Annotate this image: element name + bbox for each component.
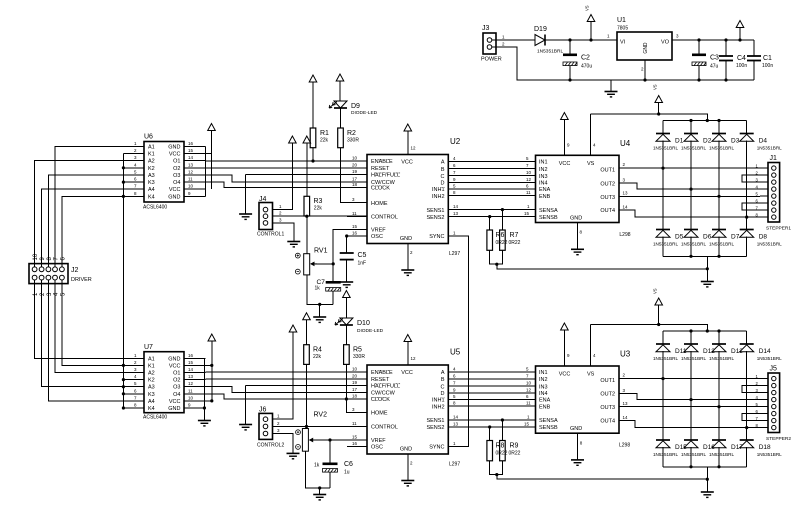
svg-text:CLOCK: CLOCK — [371, 397, 390, 403]
power VCC arrow J6 — [289, 325, 297, 332]
U7 pin8 name K4 — [148, 406, 155, 412]
wire D1 anode down — [662, 141, 664, 230]
U4 pin5 number — [526, 156, 529, 161]
svg-text:10: 10 — [526, 170, 532, 175]
wire J1 pins2-3 loop — [742, 175, 768, 182]
D8 value 1N5351BRL — [757, 242, 782, 247]
wire D4 cathode — [746, 121, 748, 134]
svg-text:0R22: 0R22 — [509, 451, 521, 457]
wire OUT2 to J1 pin4 — [619, 183, 760, 189]
wire U3 VCC pin9 — [563, 330, 565, 366]
connector J4 — [259, 203, 273, 230]
wire J1 pin5 stub — [760, 195, 768, 197]
resistor R5 — [344, 345, 350, 365]
J5 pin1 number — [756, 374, 759, 379]
U5 pin17 number — [352, 387, 358, 392]
C3 value 47u — [710, 64, 719, 70]
RV2 value 1k — [314, 463, 320, 469]
svg-text:INH2: INH2 — [432, 404, 445, 410]
diode-led D10 — [335, 318, 353, 325]
svg-text:GND: GND — [570, 216, 582, 222]
U6 pin15 name VCC — [169, 152, 181, 158]
ground symbol power rail — [605, 92, 618, 97]
power VCC arrow R3 — [303, 136, 311, 196]
U7 pin14 name O1 — [173, 371, 180, 377]
wire U6 pin7 stub — [123, 188, 144, 190]
U4 pin12 number — [526, 177, 532, 182]
svg-text:IN4: IN4 — [539, 391, 548, 397]
wire U2 OSC stub — [347, 235, 367, 237]
J2 bottom pin number 2 — [40, 292, 46, 296]
wire U7 pin2 stub — [123, 364, 144, 366]
svg-text:K2: K2 — [148, 378, 155, 384]
junction OUT2 diodes — [689, 188, 692, 191]
J5 pin5 number — [756, 402, 759, 407]
U4 OUT1 label — [600, 168, 615, 174]
wire SENS2 to U3 SENSB — [448, 426, 535, 428]
U7 pin3 name A2 — [148, 371, 155, 377]
svg-text:18: 18 — [352, 182, 358, 187]
U5 pin10 number — [352, 367, 358, 372]
wire U7 VCC pin10 — [184, 400, 212, 402]
svg-text:1N5351BRL: 1N5351BRL — [757, 242, 782, 247]
U7 pin3 number — [134, 367, 137, 372]
svg-text:1N5351BRL: 1N5351BRL — [709, 356, 734, 361]
J3 pin2 number — [502, 42, 505, 47]
svg-text:GND: GND — [168, 356, 180, 362]
resistor R4 — [304, 345, 310, 365]
svg-text:SENSB: SENSB — [539, 425, 558, 431]
wire D19 to U1 VI — [545, 39, 618, 41]
wire RV1 bottom rail — [307, 275, 333, 305]
potentiometer RV1 — [295, 253, 317, 275]
wire C4 top — [725, 40, 727, 56]
svg-text:CONTROL1: CONTROL1 — [257, 232, 284, 238]
wire diode top rail — [663, 120, 747, 122]
svg-text:D: D — [441, 391, 445, 397]
svg-text:14: 14 — [623, 415, 629, 420]
wire J2 pin5 to U7 pin2 — [62, 280, 144, 365]
svg-text:D1: D1 — [675, 138, 684, 145]
wire diode bottom rail — [663, 255, 747, 257]
wire R8 R9 join — [490, 461, 503, 475]
R2 refdes — [347, 130, 356, 137]
svg-text:OUT2: OUT2 — [600, 392, 615, 398]
wire R9 top — [501, 420, 503, 441]
J5 refdes — [770, 366, 778, 373]
R7 value 0R22 — [509, 240, 521, 246]
D1 value 1N5351BRL — [653, 146, 678, 151]
capacitor C3 — [692, 54, 706, 66]
C5 value 1nF — [358, 261, 367, 267]
U2 pin SENS2 label — [426, 215, 444, 221]
U2 pin CONTROL label — [371, 215, 398, 221]
svg-text:OUT1: OUT1 — [600, 378, 615, 384]
resistor R7 — [500, 230, 506, 250]
D4 refdes — [759, 138, 768, 145]
wire bus grounded HALF/FULL2 — [246, 384, 367, 386]
svg-text:7805: 7805 — [617, 26, 628, 32]
U4 pin14 number — [623, 204, 629, 209]
wire U2 GND pin2 — [407, 244, 409, 270]
junction U7 VCC pin15 — [210, 364, 213, 367]
U5 pin16 number — [352, 441, 358, 446]
wire U2 to U4 IN1 — [448, 161, 535, 163]
svg-text:VCC: VCC — [169, 363, 181, 369]
wire U4 GND pin8 — [577, 223, 579, 249]
svg-text:15: 15 — [188, 148, 194, 153]
driver U3 body — [536, 366, 620, 433]
wire cathode common bus — [122, 154, 124, 366]
J5 pin8 number — [756, 423, 759, 428]
svg-text:VS: VS — [652, 84, 657, 90]
svg-text:15: 15 — [524, 211, 530, 216]
wire U5 CONTROL stub — [347, 426, 367, 428]
U6 pin3 name A2 — [148, 159, 155, 165]
U3 pin ENA label — [539, 398, 551, 404]
U5 pin VREF label — [371, 438, 386, 444]
wire R7 top — [501, 210, 503, 230]
svg-text:CW/CCW: CW/CCW — [371, 391, 396, 397]
svg-text:GND: GND — [168, 144, 180, 150]
U7 pin14 number — [188, 367, 194, 372]
wire U7 pin12 stub — [184, 386, 206, 388]
D14 refdes — [759, 348, 771, 355]
U2 pin CLOCK label — [371, 186, 390, 192]
wire U5 OSC stub — [347, 446, 367, 448]
wire U7 GND loop — [203, 358, 205, 408]
D5 refdes — [675, 234, 684, 241]
svg-text:L298: L298 — [619, 443, 630, 449]
D9 refdes — [351, 103, 360, 110]
U4 OUT4 label — [600, 208, 615, 214]
ground symbol diode rail 2 — [701, 492, 714, 497]
svg-text:STEPPER2: STEPPER2 — [766, 436, 791, 442]
svg-text:15: 15 — [524, 421, 530, 426]
C1 value 100n — [762, 63, 773, 69]
junction OSC C5 — [345, 234, 348, 237]
svg-text:19: 19 — [352, 380, 358, 385]
U1 pin1 number — [607, 34, 610, 39]
svg-text:J1: J1 — [770, 155, 778, 162]
svg-text:INH1: INH1 — [432, 398, 445, 404]
junction R9 SENS1-2 — [501, 418, 504, 421]
VS label top-left — [585, 5, 590, 11]
U5 pin8 number — [453, 401, 456, 406]
svg-text:K1: K1 — [148, 363, 155, 369]
U2 pin RESET label — [371, 166, 390, 172]
diode D19 — [535, 35, 545, 46]
U7 pin4 number — [134, 374, 137, 379]
wire J5 pins2-3 loop — [742, 386, 768, 393]
svg-text:1N5351BRL: 1N5351BRL — [709, 452, 734, 457]
wire D16 anode down — [690, 447, 692, 467]
U6 pin8 number — [134, 191, 137, 196]
junction U7 K bus A3 cross — [122, 385, 125, 388]
ground symbol RV2 — [313, 495, 326, 500]
U4 pin3 number — [623, 177, 626, 182]
J6 refdes — [259, 407, 267, 414]
wire J5 pin3 stub — [760, 392, 768, 394]
svg-text:OUT3: OUT3 — [600, 405, 615, 411]
svg-text:GND: GND — [168, 406, 180, 412]
U4 pin13 number — [623, 191, 629, 196]
wire D14 cathode — [746, 331, 748, 344]
U3 pin IN2 label — [539, 377, 548, 383]
svg-text:VREF: VREF — [371, 438, 386, 444]
D12 value 1N5351BRL — [681, 356, 706, 361]
capacitor C1 — [747, 56, 761, 61]
U3 pin9 number — [567, 353, 570, 358]
D15 value 1N5351BRL — [653, 452, 678, 457]
U3 refdes — [620, 350, 631, 359]
U5 value L297 — [449, 462, 460, 468]
junction R8 SENS2-2 — [488, 425, 491, 428]
wire J2 pin9 to U6 pin7 — [42, 189, 144, 267]
D6 refdes — [703, 234, 712, 241]
wire D5 anode down — [662, 237, 664, 257]
svg-text:20: 20 — [352, 374, 358, 379]
diode D8 — [740, 230, 754, 238]
U4 VS label — [587, 161, 595, 167]
wire bus HALF/FULL2 jog — [206, 387, 368, 393]
diode D18 — [740, 440, 754, 448]
resistor R2 — [338, 128, 344, 148]
D18 value 1N5351BRL — [757, 452, 782, 457]
U6 pin1 number — [134, 141, 137, 146]
junction R4 CONTROL2 — [305, 425, 308, 428]
R1 value 22k — [320, 138, 329, 144]
svg-text:SENSB: SENSB — [539, 215, 558, 221]
D2 refdes — [703, 138, 712, 145]
svg-text:DIODE-LED: DIODE-LED — [351, 110, 378, 116]
wire U5 CW/CCW stub — [347, 391, 367, 393]
U5 pin RESET label — [371, 377, 390, 383]
wire U7 VCC pin15 — [204, 364, 211, 366]
D2 value 1N5351BRL — [681, 146, 706, 151]
U5 pin18 number — [352, 394, 358, 399]
svg-text:C6: C6 — [344, 461, 353, 468]
svg-text:18: 18 — [352, 394, 358, 399]
wire U6 pin10 stub — [184, 188, 206, 190]
driver U4 body — [536, 155, 620, 222]
wire U5 RESET stub — [347, 378, 367, 380]
svg-text:R2: R2 — [347, 130, 356, 137]
svg-text:A1: A1 — [148, 356, 155, 362]
svg-text:J4: J4 — [259, 196, 267, 203]
svg-text:VCC: VCC — [559, 161, 571, 167]
svg-text:IN2: IN2 — [539, 377, 548, 383]
wire J5 pin1 stub — [760, 378, 768, 380]
junction VS diode rail — [706, 119, 709, 122]
U2 VCC label — [401, 160, 413, 166]
U6 pin4 name K2 — [148, 166, 155, 172]
ground symbol RV1 — [313, 317, 326, 322]
wire bus CLOCK jog — [206, 182, 368, 187]
U5 pin SENS1 label — [426, 418, 444, 424]
U4 GND label — [570, 216, 582, 222]
svg-text:OUT4: OUT4 — [600, 419, 615, 425]
wire J2 pin3 to U7 pin7 — [48, 280, 144, 401]
svg-text:10: 10 — [352, 367, 358, 372]
U4 pin1 number — [527, 204, 530, 209]
U3 pin15 number — [524, 421, 530, 426]
U6 pin13 number — [188, 162, 194, 167]
J1 pin7 number — [756, 205, 759, 210]
U5 pin20 number — [352, 374, 358, 379]
svg-text:0R22: 0R22 — [496, 240, 508, 246]
U6 pin3 number — [134, 155, 137, 160]
wire U1 VO output — [672, 39, 754, 41]
diode D7 — [712, 230, 726, 238]
diode D2 — [684, 134, 698, 142]
svg-text:C5: C5 — [358, 252, 367, 259]
svg-text:VCC: VCC — [169, 187, 181, 193]
svg-text:13: 13 — [453, 422, 459, 427]
svg-text:U7: U7 — [144, 344, 153, 351]
svg-text:U1: U1 — [617, 17, 626, 24]
wire RV1 wiper to VREF — [315, 230, 367, 264]
R3 refdes — [314, 198, 323, 205]
U2 pin3 number — [352, 197, 355, 202]
ground symbol U4 — [571, 249, 584, 254]
svg-text:R9: R9 — [510, 443, 519, 450]
svg-text:C: C — [441, 384, 445, 390]
wire U2 RESET stub — [347, 167, 367, 169]
svg-text:100n: 100n — [762, 63, 773, 69]
wire D15 anode down — [662, 447, 664, 467]
diode D11 — [656, 344, 670, 352]
wire U6 pin5 stub — [123, 174, 144, 176]
svg-text:GND: GND — [570, 426, 582, 432]
junction K4 on cathode bus — [122, 195, 125, 198]
junction K3 on cathode bus — [122, 181, 125, 184]
wire D11 cathode — [662, 331, 664, 344]
svg-text:U4: U4 — [620, 139, 631, 148]
J5 pin6 number — [756, 409, 759, 414]
svg-text:VCC: VCC — [401, 160, 413, 166]
wire diode top rail 2 — [663, 330, 747, 332]
D14 value 1N5351BRL — [757, 356, 782, 361]
wire J6 pin2 — [273, 426, 307, 428]
wire J1 pin4 stub — [760, 188, 768, 190]
svg-text:22k: 22k — [314, 206, 323, 212]
wire U2 to U4 ENB — [448, 195, 535, 197]
junction C3 bottom rail — [697, 78, 700, 81]
svg-text:11: 11 — [188, 388, 193, 393]
opto-isolator U7 body — [144, 352, 184, 413]
U5 VCC label — [401, 370, 413, 376]
U2 pin5 number — [453, 184, 456, 189]
svg-text:1N5351BRL: 1N5351BRL — [709, 146, 734, 151]
wire U7 pin6 stub — [123, 393, 144, 395]
wire U5 to U3 IN1 — [448, 371, 535, 373]
J4 pin2 number — [279, 211, 282, 216]
svg-text:R1: R1 — [320, 130, 329, 137]
wire J5 pin7 stub — [760, 420, 768, 422]
connector J2 — [29, 264, 68, 284]
R3 value 22k — [314, 206, 323, 212]
svg-text:12: 12 — [188, 381, 194, 386]
wire U6 pin12 stub — [184, 174, 206, 176]
wire C6 top — [329, 440, 331, 463]
diode D13 — [712, 344, 726, 352]
U1 pin VO label — [661, 40, 670, 46]
wire OUT3 to J5 pin5 — [619, 406, 760, 408]
J2 top pin number 8 — [47, 257, 53, 261]
ground symbol U5 — [401, 481, 414, 486]
U3 pin12 number — [526, 387, 532, 392]
svg-text:R5: R5 — [353, 347, 362, 354]
VS label mid — [652, 84, 657, 90]
U6 pin5 number — [134, 169, 137, 174]
diode D6 — [684, 230, 698, 238]
svg-text:16: 16 — [352, 231, 358, 236]
U3 pin7 number — [526, 374, 529, 379]
wire U5 to U3 ENB — [448, 405, 535, 407]
junction C2 top node — [568, 38, 571, 41]
svg-text:O1: O1 — [173, 159, 180, 165]
U7 pin8 number — [134, 403, 137, 408]
svg-text:A: A — [441, 370, 445, 376]
wire U6 pin14 stub — [184, 160, 206, 162]
wire U2 HALF/FULL stub — [347, 174, 367, 176]
svg-text:CONTROL2: CONTROL2 — [257, 443, 284, 449]
U4 pin ENA label — [539, 187, 551, 193]
wire U5 to U3 ENA — [448, 398, 535, 400]
U5 pin9 number — [453, 387, 456, 392]
U2 pin10 number — [352, 156, 358, 161]
U2 pin INH2 label — [432, 194, 445, 200]
wire U2 CLOCK stub — [347, 187, 367, 189]
wire U2 VREF stub — [347, 229, 367, 231]
svg-text:D6: D6 — [703, 234, 712, 241]
svg-text:SENS2: SENS2 — [426, 425, 444, 431]
svg-text:1N5351BRL: 1N5351BRL — [537, 49, 563, 55]
svg-text:12: 12 — [411, 356, 417, 361]
R5 value 330R — [353, 354, 365, 360]
D9 value DIODE-LED — [351, 110, 378, 116]
U2 pin4 number — [453, 156, 456, 161]
U5 pin2 number — [410, 461, 413, 466]
U3 pin8 number — [580, 440, 583, 445]
U2 pin11 number — [352, 211, 357, 216]
svg-text:0R22: 0R22 — [509, 240, 521, 246]
svg-text:D9: D9 — [351, 103, 360, 110]
wire J2 pin4 to U7 pin3 — [55, 280, 144, 373]
U7 pin15 name VCC — [169, 363, 181, 369]
junction VS diode rail 2 — [706, 329, 709, 332]
U6 pin14 name O1 — [173, 159, 180, 165]
C2 value 470u — [581, 64, 592, 70]
J1 pin4 number — [756, 184, 759, 189]
svg-text:K2: K2 — [148, 166, 155, 172]
wire D11 anode down — [662, 351, 664, 440]
power VCC arrow U2 — [404, 124, 412, 131]
C5 refdes — [358, 252, 367, 259]
U5 pin19 number — [352, 380, 358, 385]
resistor R8 — [487, 441, 493, 461]
junction RV2 ground rail — [318, 486, 321, 489]
svg-text:R8: R8 — [496, 443, 505, 450]
junction C3 top — [697, 38, 700, 41]
svg-text:VCC: VCC — [401, 370, 413, 376]
J1 refdes — [770, 155, 778, 162]
wire J5 pin5 stub — [760, 406, 768, 408]
svg-text:11: 11 — [526, 190, 531, 195]
junction sense rail 2 — [706, 478, 709, 481]
svg-text:C2: C2 — [581, 55, 590, 62]
